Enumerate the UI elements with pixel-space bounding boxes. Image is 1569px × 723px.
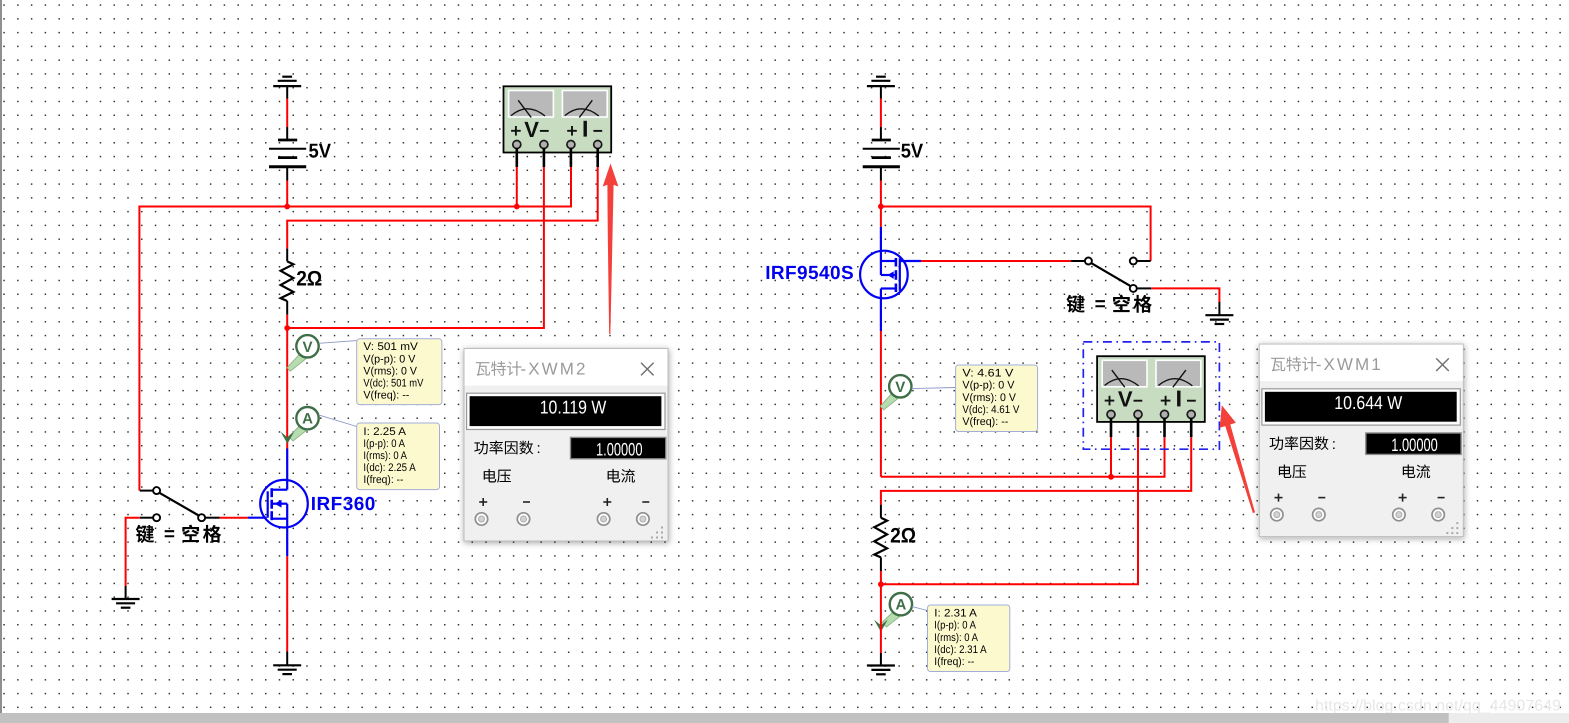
probe data box V: 4.61 V [956, 365, 1038, 432]
connector line A probe to data box [319, 415, 357, 427]
probe data box I: 2.25 A [357, 423, 440, 490]
selection box (dashed) around XWM1 [1083, 342, 1219, 449]
wire ground to battery V1 [286, 99, 288, 128]
ground GND5 (right of switch S2) [1205, 302, 1233, 324]
svg-text:I(rms): 0 A: I(rms): 0 A [934, 632, 978, 644]
svg-text:https://blog.csdn.net/qq_44907: https://blog.csdn.net/qq_44907649 [1315, 698, 1561, 715]
svg-text:I(rms): 0 A: I(rms): 0 A [363, 450, 407, 462]
switch S2 (key = space) [1071, 258, 1151, 292]
svg-text:A: A [302, 411, 313, 428]
annotation arrow (points to XWM1 icon) [1220, 405, 1255, 513]
switch S1 (key = space) [140, 487, 220, 521]
label IRF9540S [765, 263, 854, 284]
svg-text:I(freq): --: I(freq): -- [934, 656, 974, 668]
wire MOSFET Q1 source to ground [286, 556, 288, 651]
ground GND6 (below right A probe) [867, 653, 895, 674]
label 5V (battery V1) [309, 141, 332, 163]
wattmeter XWM1 icon [1097, 356, 1205, 422]
wire wattmeter V+ drop to node D [1110, 437, 1112, 477]
svg-text:A: A [895, 597, 906, 614]
node E junction dot [878, 581, 884, 587]
node A junction dot (battery tap) [284, 204, 290, 210]
resistor R2 [874, 505, 887, 571]
wire ground to battery V2 [880, 99, 882, 128]
current probe A (left) [281, 407, 319, 444]
wire node D horizontal to wattmeter I+ [881, 437, 1165, 477]
ground GND2 (below switch S1) [112, 586, 140, 608]
wire battery V2 to node C [880, 181, 882, 207]
battery V2 5V [863, 127, 900, 181]
node C junction dot [878, 204, 884, 210]
wire node B to MOSFET Q1 drain [286, 328, 288, 449]
svg-text:I: 2.25 A: I: 2.25 A [363, 426, 406, 438]
svg-text:1.00000: 1.00000 [596, 439, 643, 459]
wire wattmeter V- to resistor R1 bottom [287, 167, 544, 328]
wire switch S1 to MOSFET gate [220, 517, 248, 519]
svg-text:V(dc): 4.61 V: V(dc): 4.61 V [962, 404, 1020, 416]
connector line V probe to data box [319, 341, 357, 344]
svg-text:IRF360: IRF360 [311, 494, 376, 515]
svg-text:V(freq): --: V(freq): -- [363, 390, 409, 402]
svg-text::: : [537, 440, 541, 457]
label IRF360 [311, 494, 376, 515]
svg-text:2Ω: 2Ω [296, 268, 322, 291]
svg-text:5V: 5V [309, 141, 332, 163]
ground GND4 (top of right battery, flipped) [867, 77, 895, 99]
svg-text:I(freq): --: I(freq): -- [363, 474, 403, 486]
node junction dot V+ tap [514, 204, 520, 210]
svg-text:10.119 W: 10.119 W [540, 396, 607, 417]
wire MOSFET Q2 gate to switch S2 [921, 260, 1071, 262]
wire battery to node A [286, 181, 288, 207]
svg-text:V(dc): 501 mV: V(dc): 501 mV [363, 378, 424, 390]
node B junction dot (R1 bottom) [284, 325, 290, 331]
MOSFET Q2 IRF9540S (P-channel, mirrored) [860, 251, 921, 331]
svg-text:I(dc): 2.31 A: I(dc): 2.31 A [934, 644, 987, 656]
svg-text:5V: 5V [901, 141, 924, 163]
connector line V probe (right) to data box [912, 388, 956, 389]
scrollbar (bottom) [0, 713, 1569, 723]
wire resistor R2 to node E [880, 571, 882, 584]
voltage probe V (right) [880, 375, 911, 410]
svg-text:IRF9540S: IRF9540S [765, 263, 854, 284]
svg-text:V(rms): 0 V: V(rms): 0 V [363, 365, 417, 377]
wire node C to switch S2 upper throw [881, 207, 1151, 262]
watermark [1315, 698, 1561, 715]
label 2 ohm (R2) [890, 524, 916, 547]
svg-text:V(p-p): 0 V: V(p-p): 0 V [962, 380, 1015, 392]
label key = space (S2) [1067, 294, 1152, 315]
wattmeter XWM2 icon [504, 86, 612, 152]
svg-text:I(p-p): 0 A: I(p-p): 0 A [934, 620, 976, 632]
wire wattmeter V+ drop [516, 167, 518, 207]
wattmeter dialog XWM2 [464, 349, 668, 542]
voltage probe V (left) [287, 335, 319, 371]
probe data box V: 501 mV [357, 339, 442, 405]
svg-text:=: = [1095, 294, 1106, 315]
wire MOSFET Q2 drain down to wattmeter node D [880, 331, 882, 477]
svg-text:V(p-p): 0 V: V(p-p): 0 V [363, 353, 416, 365]
wire node E to wattmeter V- [881, 437, 1138, 584]
wattmeter dialog XWM1 [1259, 344, 1463, 536]
resistor R1 [281, 249, 294, 315]
svg-text:V: 501 mV: V: 501 mV [363, 341, 418, 353]
svg-text:V(freq): --: V(freq): -- [962, 416, 1008, 428]
wire wattmeter I- to resistor R1 top [287, 167, 598, 249]
wire switch S1 lower throw to ground [126, 518, 140, 586]
wire resistor R1 to node B [286, 315, 288, 328]
wattmeter XWM1 pin stubs [1111, 418, 1191, 437]
svg-text:-XWM2: -XWM2 [521, 360, 586, 379]
svg-text:I(dc): 2.25 A: I(dc): 2.25 A [363, 462, 416, 474]
svg-text:=: = [164, 524, 175, 545]
ground GND1 (top of left battery, flipped) [273, 77, 301, 99]
MOSFET Q1 IRF360 [248, 449, 308, 557]
node D junction dot [1108, 474, 1114, 480]
svg-text:V: V [302, 339, 312, 356]
canvas left border [0, 0, 2, 713]
connector line A probe (right) to data box [912, 607, 927, 611]
svg-text:V: V [1118, 387, 1133, 412]
svg-text:1.00000: 1.00000 [1391, 435, 1438, 455]
annotation arrow (points to wattmeter XWM2 wires) [603, 164, 619, 335]
svg-text:2Ω: 2Ω [890, 524, 916, 547]
label key = space (S1) [136, 524, 222, 545]
svg-text:V(rms): 0 V: V(rms): 0 V [962, 392, 1016, 404]
svg-text:V: V [895, 379, 905, 396]
probe data box I: 2.31 A [928, 605, 1010, 672]
wire wattmeter I- to resistor R2 top [881, 437, 1191, 505]
svg-text:10.644 W: 10.644 W [1334, 392, 1402, 413]
wire horizontal bus node A to wattmeter I+ [139, 167, 571, 491]
svg-text:I: 2.31 A: I: 2.31 A [934, 608, 977, 620]
label 5V (battery V2) [901, 141, 924, 163]
wire switch S2 lower throw to ground [1151, 288, 1219, 302]
svg-text:V: 4.61 V: V: 4.61 V [962, 368, 1014, 380]
current probe A (right) [874, 593, 912, 632]
ground GND3 (below MOSFET Q1) [273, 652, 301, 675]
svg-text:I(p-p): 0 A: I(p-p): 0 A [363, 438, 405, 450]
label 2 ohm (R1) [296, 268, 322, 291]
wattmeter XWM2 pin stubs [517, 148, 598, 167]
svg-text::: : [1332, 436, 1336, 453]
svg-text:V: V [524, 117, 539, 142]
svg-text:-XWM1: -XWM1 [1316, 355, 1381, 374]
wire node E to ground [880, 584, 882, 653]
wire node C to MOSFET Q2 source (blue lead) [880, 207, 882, 262]
battery V1 5V [269, 127, 306, 181]
